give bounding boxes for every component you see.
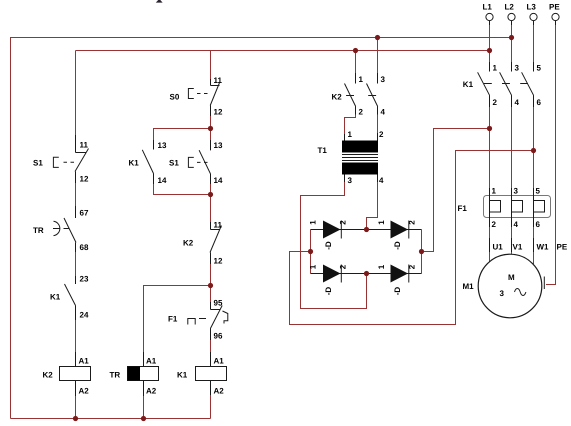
svg-text:3: 3 — [514, 187, 519, 196]
wire L1 vertical — [489, 24, 491, 263]
svg-text:11: 11 — [214, 221, 223, 230]
svg-text:5: 5 — [536, 187, 541, 196]
svg-text:2: 2 — [408, 264, 417, 269]
wire L3 vertical — [533, 24, 535, 264]
svg-text:A2: A2 — [214, 387, 225, 396]
svg-text:67: 67 — [80, 209, 89, 218]
junction dot bridge bottom mid — [364, 271, 369, 276]
svg-text:1: 1 — [348, 130, 353, 139]
junction dot bridge right mid — [419, 249, 424, 254]
terminal L3 — [530, 13, 537, 20]
svg-text:A1: A1 — [79, 357, 90, 366]
svg-text:13: 13 — [214, 141, 223, 150]
pushbutton S1 13/14 actuator — [188, 157, 207, 167]
svg-text:2: 2 — [339, 264, 348, 269]
bridge row lines — [311, 230, 422, 274]
svg-text:1: 1 — [377, 220, 386, 225]
svg-text:K1: K1 — [50, 293, 61, 302]
svg-text:S1: S1 — [33, 159, 43, 168]
svg-text:96: 96 — [214, 332, 223, 341]
timer contact TR 67/68 — [64, 206, 76, 252]
wire TR coil branch — [144, 286, 211, 419]
overload F1 pole 1-2 — [490, 188, 501, 227]
svg-text:1: 1 — [377, 264, 386, 269]
svg-text:12: 12 — [214, 257, 223, 266]
svg-text:2: 2 — [339, 220, 348, 225]
svg-text:K2: K2 — [183, 239, 194, 248]
svg-text:4: 4 — [515, 98, 520, 107]
transformer T1 — [345, 133, 378, 141]
svg-text:PE: PE — [549, 3, 560, 12]
svg-text:TR: TR — [110, 371, 121, 380]
svg-text:W1: W1 — [537, 243, 550, 252]
pushbutton S1 NC 11/12 — [75, 135, 89, 183]
svg-text:12: 12 — [214, 108, 223, 117]
svg-text:95: 95 — [214, 299, 223, 308]
svg-text:24: 24 — [80, 311, 89, 320]
svg-text:V1: V1 — [513, 243, 523, 252]
svg-text:K2: K2 — [43, 371, 54, 380]
contact K1 NO 23/24 — [65, 276, 76, 320]
svg-text:A1: A1 — [214, 357, 225, 366]
junction dot bottom K2 coil — [73, 416, 78, 421]
overload F1 pole 3-4 — [512, 188, 523, 227]
svg-text:1: 1 — [493, 64, 498, 73]
thermal element symbol — [188, 319, 206, 325]
svg-text:2: 2 — [492, 220, 497, 229]
junction dot top line K2 — [375, 35, 380, 40]
contactor K2 pole 3-4 — [367, 73, 378, 115]
pushbutton S0 actuator — [188, 89, 207, 99]
coil K1 — [210, 352, 212, 395]
svg-text:K1: K1 — [129, 159, 140, 168]
svg-text:5: 5 — [537, 64, 542, 73]
motor M1 — [478, 254, 542, 318]
svg-text:1: 1 — [309, 220, 318, 225]
svg-text:4: 4 — [379, 176, 384, 185]
junction dot parallel top — [208, 126, 213, 131]
svg-text:6: 6 — [537, 98, 542, 107]
svg-text:3: 3 — [381, 75, 386, 84]
wire left branch verticals — [75, 51, 77, 419]
contactor K2 link dashes — [346, 95, 376, 97]
thermal contact F1 hook — [223, 311, 228, 324]
motor PE tick — [543, 277, 545, 290]
terminal L2 — [508, 13, 515, 20]
pushbutton S1 actuator — [53, 157, 74, 167]
svg-text:-D: -D — [324, 241, 333, 250]
svg-text:M: M — [508, 273, 515, 282]
coil K2 — [75, 352, 77, 396]
wire middle branch verticals — [210, 51, 212, 419]
svg-text:14: 14 — [158, 176, 167, 185]
wire K2 pole feeds — [356, 38, 378, 84]
svg-text:T1: T1 — [318, 146, 328, 155]
svg-text:4: 4 — [514, 220, 519, 229]
junction dot line2 K2 — [353, 48, 358, 53]
contactor K1 main pole 3-4 — [500, 62, 512, 107]
diode D1 top-left — [323, 221, 341, 239]
wire parallel branch K1/S1 — [154, 129, 211, 195]
junction dot TR branch — [208, 283, 213, 288]
svg-text:3: 3 — [515, 64, 520, 73]
svg-text:2: 2 — [408, 220, 417, 225]
wire T1 secondary to bridge AC — [301, 175, 378, 309]
pushbutton S1 NO 13/14 — [199, 140, 210, 184]
svg-text:-D: -D — [393, 241, 402, 250]
diode D3 bottom-left — [323, 265, 341, 283]
junction dot top line L2 — [509, 35, 514, 40]
svg-text:-D: -D — [324, 287, 333, 296]
svg-text:68: 68 — [80, 243, 89, 252]
terminal PE — [552, 13, 559, 20]
wire bridge right rail — [421, 230, 423, 274]
wire DC minus to L3 — [290, 151, 534, 325]
junction dot DC plus L1 — [487, 126, 492, 131]
wire second supply line — [76, 50, 490, 52]
svg-text:S1: S1 — [169, 159, 179, 168]
svg-text:A2: A2 — [146, 387, 157, 396]
svg-text:L2: L2 — [505, 3, 515, 12]
timer TR delay symbol — [53, 221, 69, 235]
svg-text:S0: S0 — [170, 93, 180, 102]
svg-text:11: 11 — [80, 141, 89, 150]
svg-text:1: 1 — [359, 75, 364, 84]
svg-text:A2: A2 — [79, 387, 90, 396]
wire L2 vertical — [511, 24, 513, 254]
motor sine — [515, 289, 526, 296]
svg-text:23: 23 — [80, 275, 89, 284]
svg-text:11: 11 — [214, 76, 223, 85]
svg-text:1: 1 — [492, 187, 497, 196]
svg-text:1: 1 — [309, 264, 318, 269]
contact K1 NO 13/14 — [142, 140, 153, 184]
diode D4 bottom-right — [391, 265, 409, 283]
junction dot parallel bottom — [208, 192, 213, 197]
thermal contact F1 NC 95/96 — [210, 302, 222, 340]
svg-text:A1: A1 — [146, 357, 157, 366]
contactor K1 main pole 5-6 — [522, 62, 534, 107]
wire bottom control line — [11, 418, 211, 420]
junction dot bridge left mid — [308, 249, 313, 254]
overload F1 block — [484, 196, 551, 218]
svg-text:6: 6 — [536, 220, 541, 229]
contactor K1 link dashes — [484, 83, 528, 85]
wire PE vertical — [546, 24, 556, 285]
svg-text:-D: -D — [393, 287, 402, 296]
svg-text:F1: F1 — [458, 204, 468, 213]
svg-text:2: 2 — [379, 130, 384, 139]
junction dot line2 L1 — [487, 48, 492, 53]
svg-text:3: 3 — [500, 289, 505, 298]
svg-text:L1: L1 — [483, 3, 493, 12]
contactor K2 pole 1-2 — [345, 73, 356, 115]
pushbutton S0 NC contact — [210, 79, 219, 116]
svg-text:3: 3 — [348, 176, 353, 185]
coil TR — [143, 352, 145, 396]
junction dot bridge top mid — [364, 227, 369, 232]
cropped glyph fragment at top edge — [156, 0, 163, 3]
svg-text:2: 2 — [493, 98, 498, 107]
contactor K1 main pole 1-2 — [478, 62, 490, 107]
svg-text:PE: PE — [557, 243, 568, 252]
svg-text:2: 2 — [359, 108, 364, 117]
terminal L1 — [486, 13, 493, 20]
svg-text:14: 14 — [214, 176, 223, 185]
svg-text:4: 4 — [381, 108, 386, 117]
overload F1 pole 5-6 — [534, 188, 545, 227]
contact K2 NC 11/12 — [210, 222, 221, 264]
wire K2 poles to T1 primary — [345, 107, 378, 141]
svg-text:13: 13 — [158, 141, 167, 150]
junction dot bottom TR coil — [141, 416, 146, 421]
svg-text:F1: F1 — [168, 315, 178, 324]
motor lead stubs — [490, 238, 534, 252]
svg-text:K1: K1 — [177, 371, 188, 380]
svg-text:K2: K2 — [332, 93, 343, 102]
svg-text:TR: TR — [33, 226, 44, 235]
wire bridge left rail — [310, 230, 312, 274]
svg-text:M1: M1 — [463, 282, 475, 291]
svg-text:12: 12 — [80, 175, 89, 184]
junction dot DC minus L3 — [531, 148, 536, 153]
svg-text:K1: K1 — [463, 80, 474, 89]
svg-text:U1: U1 — [493, 243, 504, 252]
wire left rail and top supply line — [11, 38, 512, 419]
svg-text:L3: L3 — [527, 3, 537, 12]
wire DC plus to L1 — [422, 129, 490, 252]
diode D2 top-right — [391, 221, 409, 239]
